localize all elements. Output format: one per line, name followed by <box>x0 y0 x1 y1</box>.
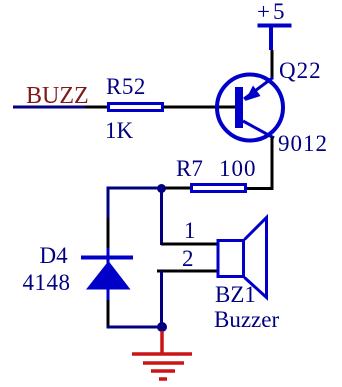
wire collector to R7 <box>247 187 272 190</box>
svg-text:100: 100 <box>219 156 257 181</box>
wire (diode top pin) <box>107 218 110 250</box>
svg-text:R52: R52 <box>106 74 146 99</box>
wire (diode bottom pin) <box>107 300 110 327</box>
svg-text:9012: 9012 <box>278 131 328 156</box>
transistor Q22 <box>217 75 283 141</box>
pin 1 wire <box>161 243 217 246</box>
svg-text:2: 2 <box>182 246 194 271</box>
wire R7 to junction <box>162 187 190 190</box>
svg-text:Buzzer: Buzzer <box>214 307 279 332</box>
diode D4 <box>81 248 133 300</box>
svg-text:R7: R7 <box>176 156 203 181</box>
ground <box>132 331 192 379</box>
wire pin2 down to ground junction <box>160 271 163 327</box>
power +5 symbol <box>258 26 292 51</box>
resistor R52 <box>109 104 163 111</box>
junction node ground <box>157 322 167 332</box>
wire junction down to pin1 <box>160 188 163 245</box>
wire BUZZ net stub <box>13 106 85 109</box>
pin 2 wire <box>157 270 217 273</box>
wire junction to left corner <box>108 188 161 218</box>
svg-text:BZ1: BZ1 <box>215 282 256 307</box>
buzzer BZ1 <box>218 218 267 298</box>
svg-text:D4: D4 <box>40 243 69 268</box>
svg-text:BUZZ: BUZZ <box>26 83 89 109</box>
junction node <box>157 184 166 193</box>
wire BUZZ to R52 <box>85 106 107 109</box>
wire collector down <box>271 137 274 190</box>
resistor R7 <box>192 185 246 192</box>
svg-text:+5: +5 <box>257 0 287 24</box>
svg-text:1K: 1K <box>105 118 134 143</box>
svg-text:4148: 4148 <box>23 270 71 295</box>
wire R52 to Q22 base <box>164 106 235 109</box>
svg-text:Q22: Q22 <box>279 58 322 83</box>
wire bottom to ground junction <box>107 326 163 329</box>
svg-text:1: 1 <box>184 218 196 243</box>
wire power to emitter <box>271 50 274 78</box>
